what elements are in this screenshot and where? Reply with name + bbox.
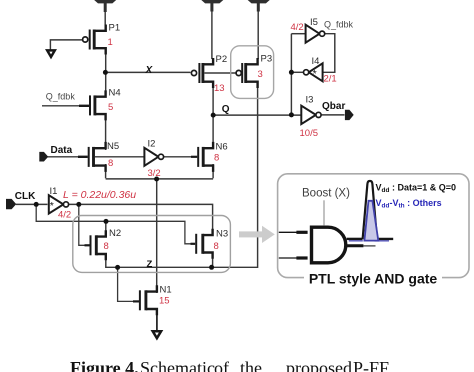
transistor N6 (198, 142, 213, 172)
svg-text:N1: N1 (160, 285, 172, 296)
transistor P1 (83, 25, 106, 55)
wire VDD3 stem (257, 11, 259, 60)
node Z tap dot (115, 265, 120, 270)
pulse waveform black outline (363, 181, 377, 239)
wire N5 to I2 input (95, 156, 144, 158)
wire P2 to P3 gate (204, 72, 236, 74)
AND gate leader line (323, 200, 325, 225)
svg-text:3/2: 3/2 (148, 168, 161, 179)
node I1out dot (76, 202, 81, 207)
vdd symbol 2 (201, 0, 223, 12)
wire Q_fdbk label lead to N4 gate (42, 105, 80, 107)
AND gate output pin (347, 244, 364, 247)
transistor N2 (91, 230, 106, 260)
node X dot (103, 70, 108, 75)
wire N6 source down (212, 164, 214, 178)
wire I3 output to Qbar (321, 114, 344, 116)
svg-text:Vdd-Vth : Others: Vdd-Vth : Others (376, 198, 442, 210)
wire N2 drain up (105, 222, 107, 232)
svg-text:I3: I3 (306, 94, 314, 105)
port Qbar (345, 110, 354, 120)
inverter I2 (144, 148, 163, 166)
svg-text:P2: P2 (216, 54, 228, 65)
ground below N1 (153, 331, 161, 338)
node CLK dot (34, 202, 39, 207)
wire P1 gate to ground (50, 40, 83, 50)
box around P3 (231, 46, 274, 99)
svg-text:8: 8 (104, 241, 109, 252)
transistor N5 (89, 142, 106, 172)
wire P3 drain down to node Z (211, 87, 258, 267)
ground at P1 gate (47, 50, 55, 57)
wire node Z rail (106, 258, 213, 267)
svg-text:PTL style AND gate: PTL style AND gate (309, 271, 438, 287)
svg-text:N5: N5 (107, 141, 119, 152)
svg-text:I5: I5 (310, 17, 318, 28)
wire common source rail N5-N6 (106, 178, 214, 180)
svg-text:I4: I4 (312, 56, 320, 67)
node N2 drain dot (104, 219, 109, 224)
svg-text:I1: I1 (50, 186, 58, 197)
wire Data to N5 gate (48, 156, 80, 158)
wire I4 output (292, 71, 303, 73)
svg-text:2/1: 2/1 (324, 74, 337, 85)
wire node Q to I3 input (213, 114, 301, 116)
wire VDD1 stem (104, 11, 106, 32)
transistor N3 (196, 229, 212, 259)
node fdbk dot (289, 70, 294, 75)
svg-text:3: 3 (258, 69, 263, 80)
svg-text:L = 0.22u/0.36u: L = 0.22u/0.36u (63, 189, 136, 201)
svg-text:8: 8 (108, 158, 113, 169)
transistor N4 (90, 90, 106, 120)
node Q-I3 dot (289, 112, 294, 117)
caption (cut off at bottom edge) (0, 359, 474, 372)
wire Q feedback rail (290, 34, 292, 115)
transistor N1 (140, 285, 157, 315)
inverter I1 (49, 195, 69, 213)
wire I1 output to N2 gate (79, 205, 86, 246)
port Data (39, 152, 48, 162)
svg-text:*: * (50, 200, 54, 212)
wire node X to P2 gate (106, 71, 191, 73)
pulse waveform blue (364, 201, 378, 241)
wire node Z tap to N1 gate (118, 268, 134, 302)
svg-text:8: 8 (214, 153, 219, 164)
wire rail to N1 drain (156, 179, 158, 293)
svg-text:Q_fdbk: Q_fdbk (46, 92, 76, 102)
svg-text:Q: Q (222, 104, 230, 115)
svg-text:N2: N2 (109, 228, 121, 239)
svg-text:Z: Z (147, 259, 153, 270)
svg-text:5: 5 (108, 102, 113, 113)
svg-text:4/2: 4/2 (291, 22, 304, 33)
wire P1 drain / node X column / N4 drain (105, 48, 107, 97)
gray arrow to callout (239, 226, 275, 243)
wire N4 source to N5 drain (105, 113, 107, 150)
svg-text:Data: Data (51, 145, 73, 156)
svg-text:P1: P1 (109, 23, 121, 34)
svg-text:N6: N6 (216, 142, 228, 153)
wire I1 output to N3 drain (69, 204, 213, 229)
port CLK (6, 199, 16, 209)
svg-text:Q_fdbk: Q_fdbk (324, 19, 354, 29)
transistor P2 (191, 58, 213, 88)
wire CLK branch to N2 drain and N3 gate (36, 204, 191, 243)
AND gate input pins (279, 232, 308, 258)
inverter I4 left-pointing (304, 63, 323, 81)
wire I5 output loop to I4 input (323, 34, 335, 73)
pulse waveform baseline (347, 239, 394, 241)
svg-text:Vdd : Data=1 & Q=0: Vdd : Data=1 & Q=0 (376, 183, 457, 195)
svg-text:N3: N3 (216, 229, 228, 240)
inverter I3 (301, 106, 321, 124)
svg-text:8: 8 (214, 241, 219, 252)
svg-text:I2: I2 (148, 138, 156, 149)
svg-text:13: 13 (214, 83, 225, 94)
svg-text:10/5: 10/5 (300, 128, 319, 139)
wire I2 output to N6 gate (164, 156, 192, 158)
wire N1 source to ground (156, 308, 158, 331)
box around N2 N3 AND gate (73, 216, 231, 273)
inverter I5 (306, 25, 325, 43)
svg-text:1: 1 (108, 37, 113, 48)
svg-text:Qbar: Qbar (322, 101, 345, 112)
AND gate (312, 227, 346, 263)
node rail dot (154, 177, 159, 182)
white mask under PTL label (304, 270, 442, 286)
transistor P3 (236, 58, 258, 88)
wire VDD2 stem (211, 11, 213, 60)
vdd symbol 1 (94, 0, 116, 12)
node N3 source dot (209, 265, 214, 270)
svg-text:CLK: CLK (15, 191, 36, 202)
svg-text:*: * (313, 68, 317, 80)
svg-text:P3: P3 (261, 54, 273, 65)
svg-text:15: 15 (159, 296, 170, 307)
box PTL callout (278, 174, 469, 278)
wire I5 input (291, 33, 305, 35)
svg-text:N4: N4 (109, 88, 121, 99)
wire node Q column P2-N6 (212, 87, 214, 143)
svg-text:4/2: 4/2 (58, 210, 71, 221)
svg-text:X: X (145, 65, 154, 76)
wire CLK input (16, 203, 48, 205)
svg-text:Boost (X): Boost (X) (302, 188, 350, 200)
vdd symbol 3 (248, 0, 270, 12)
wire N5 source down (105, 164, 107, 178)
node Q dot (211, 113, 216, 118)
